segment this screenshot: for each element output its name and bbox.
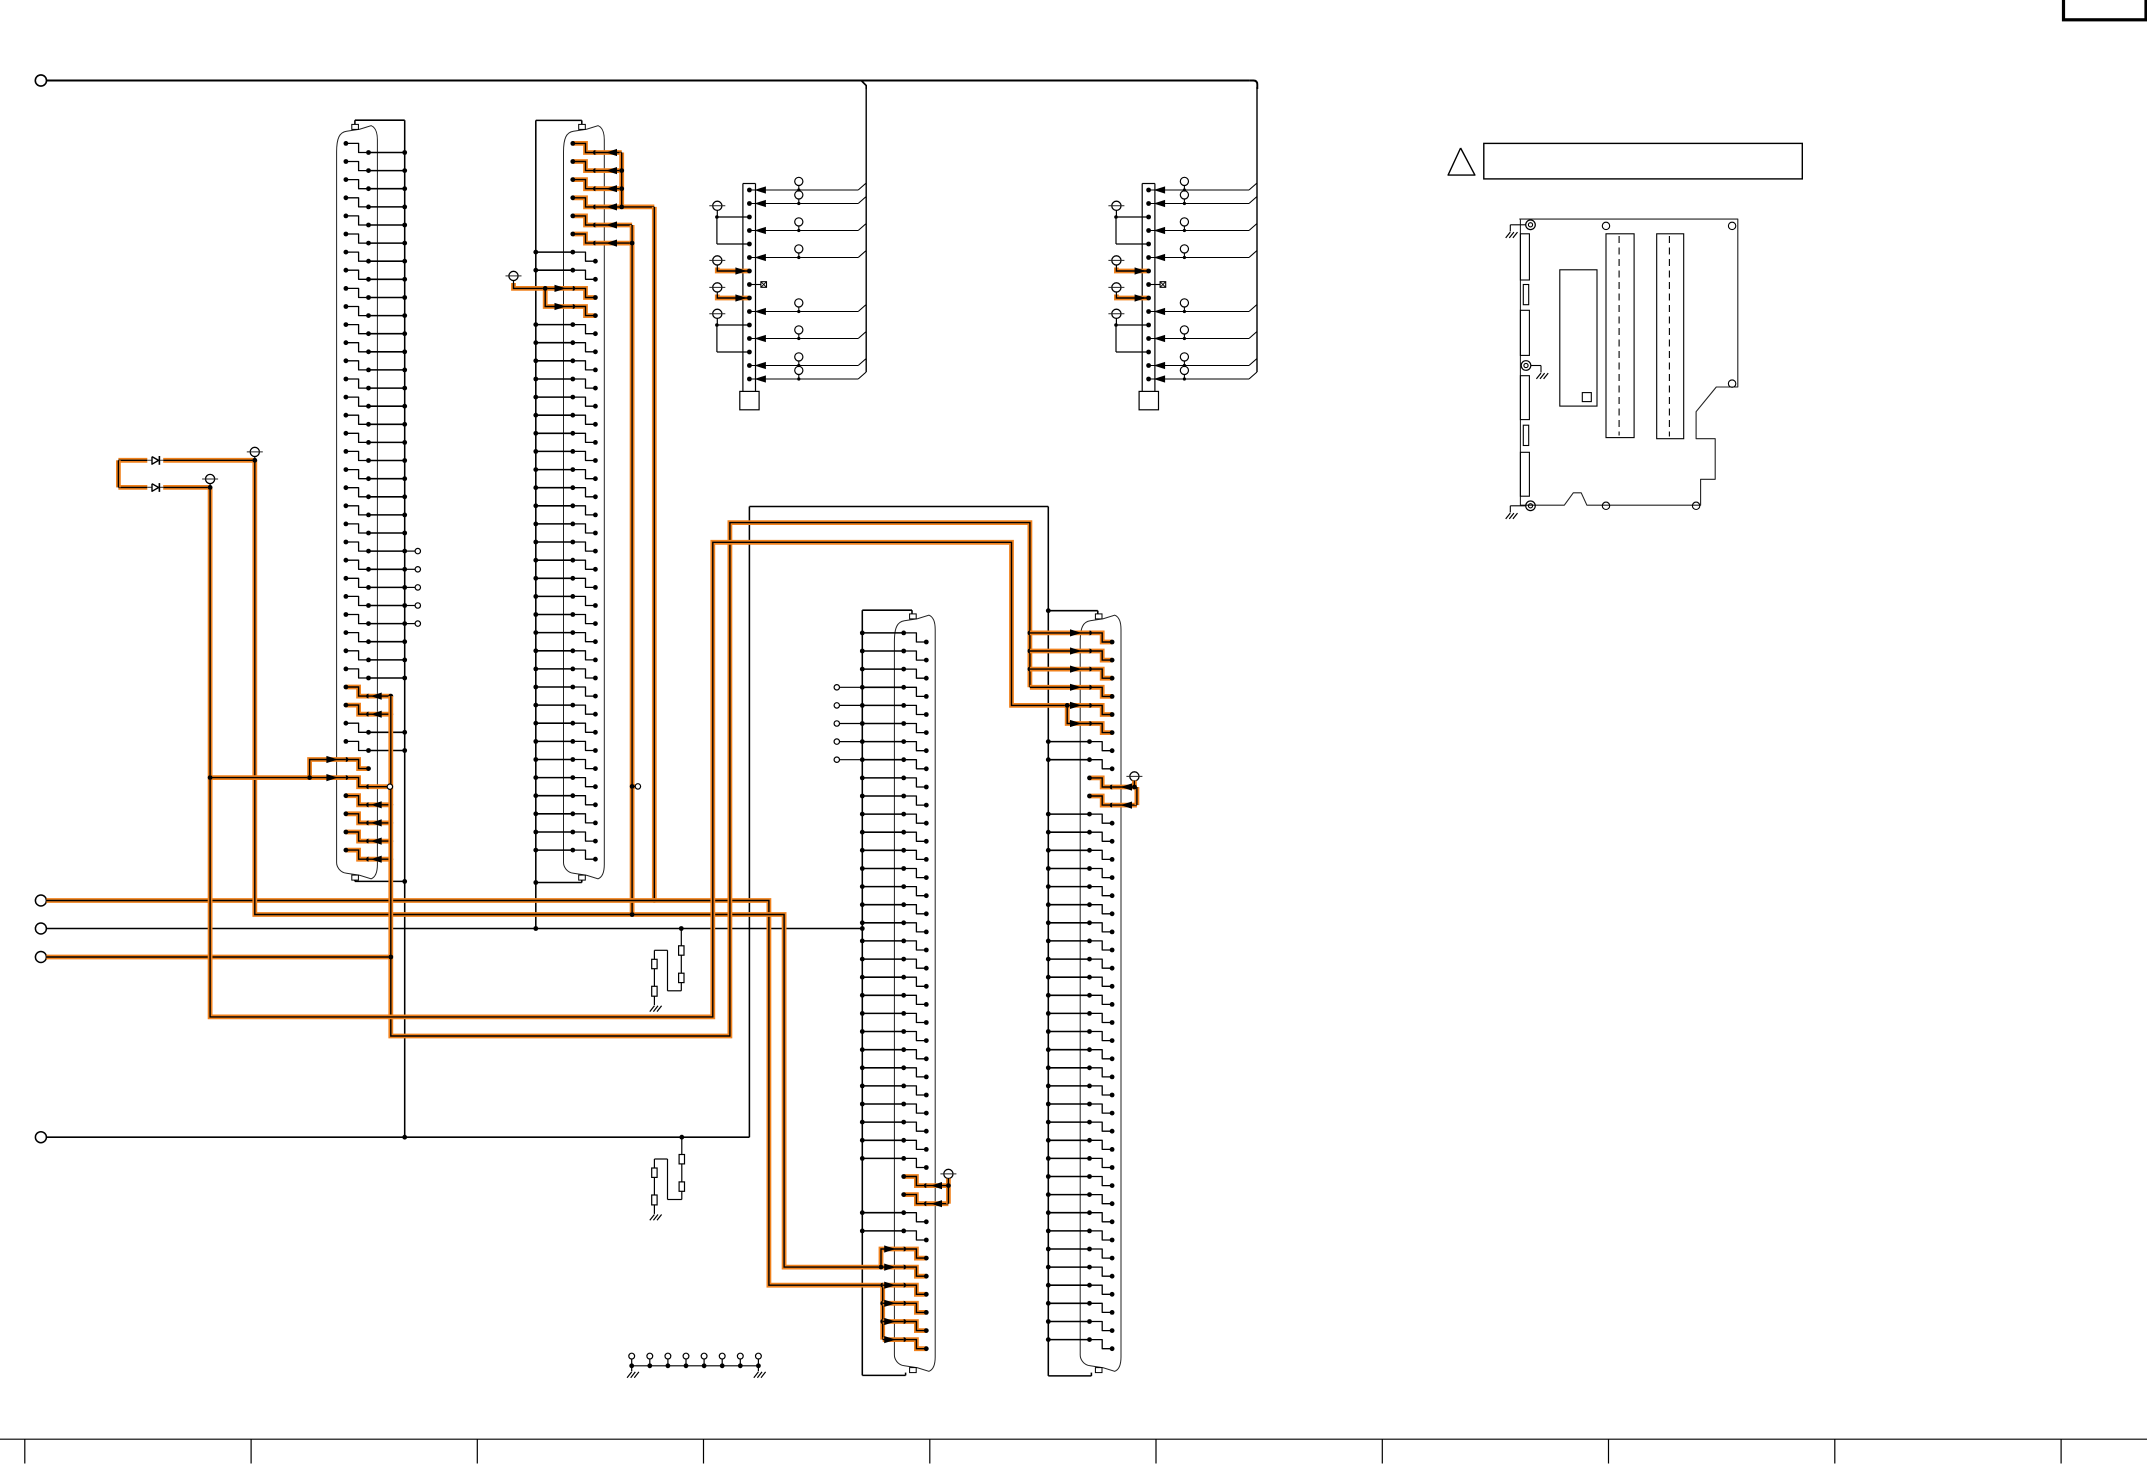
terminal T-D2 xyxy=(202,474,218,487)
wire net HL1 (P2 to CN3 pins 37-40) xyxy=(46,901,903,1340)
wire branch to left block xyxy=(861,81,866,90)
wire net W1 (CN2 pins1-4) xyxy=(619,153,656,903)
wire net GND-A (terminal P3 to CN3 bus) xyxy=(46,926,864,931)
connector block CN-L xyxy=(709,177,866,410)
terminal P1 xyxy=(35,75,46,86)
wire left block feeder xyxy=(865,87,867,372)
diode D2 xyxy=(152,483,159,492)
wire CN3 bus xyxy=(862,610,912,1375)
wire right block feeder xyxy=(1256,87,1258,372)
terminal P3 xyxy=(35,923,46,934)
wire top rail xyxy=(46,81,1257,90)
arrowheads overlay xyxy=(326,149,1165,1343)
terminal P4 xyxy=(35,952,46,963)
title block cell dividers xyxy=(25,1439,2061,1463)
wire CN4 bus xyxy=(1046,507,1098,1376)
title block rule xyxy=(0,1438,2147,1440)
resistor network RN2 xyxy=(650,1137,685,1220)
wire box top xyxy=(749,506,1048,508)
connector CN4 body xyxy=(1080,614,1121,1373)
wire net GND-B (terminal P5 line) xyxy=(46,1135,749,1140)
terminal T-D1 xyxy=(247,447,263,460)
wire net HL4 (diode D2 to CN4 pins 5-6, CN1 pins 35-36) xyxy=(118,485,1089,1017)
wire CN2 bus xyxy=(533,120,581,928)
connector CN4 pins xyxy=(1046,631,1137,1352)
resistor network RN1 xyxy=(650,929,684,1012)
terminal P5 xyxy=(35,1132,46,1143)
wire net HL3 (P4 to CN4 pins 1-4) xyxy=(46,523,1089,1036)
wire diode feed link xyxy=(116,460,121,487)
wire box left side xyxy=(748,507,750,1138)
warning triangle xyxy=(1448,148,1475,175)
wire net W4 (terminal to CN3 pins 31-32) xyxy=(940,1169,956,1203)
connector block CN-R xyxy=(1108,177,1257,410)
notice box xyxy=(1484,143,1803,179)
connector CN3 pins xyxy=(834,631,948,1352)
connector CN3 body xyxy=(894,614,935,1373)
connector CN1 pins xyxy=(344,141,421,862)
wire net W2 (CN2 pins5-6) xyxy=(630,225,641,917)
page number box xyxy=(2064,0,2147,20)
PCB board drawing xyxy=(1506,219,1738,519)
connector CN1 body xyxy=(337,124,378,880)
terminal P2 xyxy=(35,895,46,906)
wire CN1 bus xyxy=(355,120,407,1137)
connector CN2 body xyxy=(564,124,605,880)
ground terminal strip xyxy=(627,1353,766,1378)
wire net HL2 (diode D1 to CN3 pins 35-36) xyxy=(118,458,903,1270)
wire net W5 (terminal to CN4 pins 9-10) xyxy=(1126,772,1142,805)
diode D1 xyxy=(152,456,159,465)
connector CN2 pins xyxy=(533,141,632,862)
wire net W3 (terminal to CN2 pins 9-10) xyxy=(506,271,573,306)
